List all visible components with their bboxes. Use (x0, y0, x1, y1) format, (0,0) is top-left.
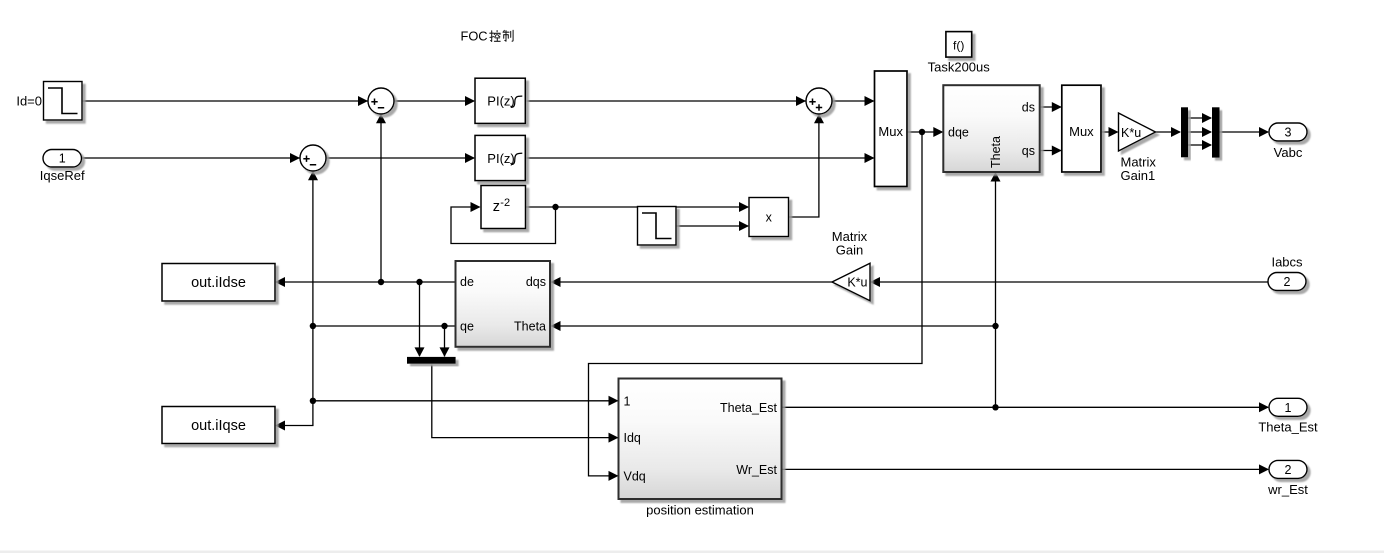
arrow into product x bottom (739, 221, 749, 231)
arrow bars line3 (1202, 140, 1212, 150)
svg-text:out.iIqse: out.iIqse (191, 418, 246, 434)
arrow into product x top (739, 202, 749, 212)
arrow into sum1 bottom (376, 114, 386, 124)
arrow into sum2 bottom (308, 171, 318, 181)
arrow into Mux1 input2 (865, 153, 875, 163)
node theta-est junction (992, 404, 998, 410)
svg-text:de: de (460, 275, 474, 289)
Mux2 (1062, 85, 1101, 172)
arrow into pos-est input1 (609, 396, 619, 406)
svg-text:qe: qe (460, 320, 474, 334)
arrow into dqe input (933, 127, 943, 137)
svg-text:K*u: K*u (847, 276, 867, 290)
sum S1 (368, 88, 394, 114)
wire sum2 to PI2 (326, 157, 475, 159)
svg-text:2: 2 (1284, 275, 1291, 289)
wire mux bar to outport3 (1220, 131, 1269, 133)
delay block Z2 (481, 186, 526, 229)
svg-text:3: 3 (1285, 126, 1292, 140)
wire product x to sum3 bottom (789, 115, 819, 218)
wire black bar to Idq (432, 365, 618, 438)
wire step2 to product x bottom input (676, 225, 748, 227)
wire de to black bar (419, 282, 421, 356)
arrow into dqs (551, 277, 561, 287)
svg-text:Idq: Idq (624, 431, 641, 445)
wire dqe ds to Mux2 (1040, 106, 1061, 108)
svg-text:FOC: FOC (461, 28, 488, 43)
svg-text:position estimation: position estimation (646, 503, 754, 518)
svg-text:Mux: Mux (1069, 124, 1094, 139)
svg-text:Theta: Theta (514, 320, 546, 334)
wire Wr_Est to outport2 (782, 468, 1269, 470)
Mux1 (875, 71, 908, 187)
mux black bar (1212, 107, 1220, 157)
title hanzi zhi (503, 30, 513, 41)
arrow bars line1 (1202, 113, 1212, 123)
node qe-sum2 junction (310, 323, 316, 329)
wire theta vertical (995, 173, 997, 407)
arrow into pos-est Vdq (609, 471, 619, 481)
arrow into sum3 bottom (814, 114, 824, 124)
arrow into out.iIqse (275, 421, 285, 431)
svg-text:Theta_Est: Theta_Est (1258, 420, 1318, 435)
step block Id=0 (44, 82, 83, 121)
outport block out.iIqse (162, 407, 275, 444)
wire Vdq feedback loop (589, 132, 923, 476)
inport 1 IqseRef (43, 150, 82, 168)
product block x (749, 198, 789, 237)
arrow into outport1 (1259, 402, 1269, 412)
svg-text:1: 1 (624, 394, 631, 408)
arrow into pos-est Idq (609, 433, 619, 443)
arrow into sum1 (358, 96, 368, 106)
outport block out.iIdse (162, 264, 275, 302)
sum S2 (300, 145, 326, 171)
node qe-bar junction (441, 323, 447, 329)
svg-text:Wr_Est: Wr_Est (736, 463, 777, 477)
svg-text:Gain1: Gain1 (1121, 168, 1156, 183)
arrow into gain1 (1109, 127, 1119, 137)
subsystem dqe/Theta (943, 85, 1039, 172)
wire Z2 feedback loop (451, 207, 556, 244)
demux black bar (1181, 107, 1188, 157)
wire qe down to out.iIqse (276, 326, 313, 426)
wire PI1 to sum3 (527, 100, 806, 102)
wire de output (276, 281, 456, 283)
node qe-input1 junction (310, 398, 316, 404)
wire Mux2 to gain1 (1101, 131, 1118, 133)
wire step1 to sum1 (82, 100, 368, 102)
arrow into Z2 input (471, 202, 481, 212)
sum S3 (806, 88, 832, 114)
wire qe to black bar (444, 326, 446, 357)
arrow into outport2 (1259, 464, 1269, 474)
svg-text:Vdq: Vdq (624, 469, 646, 483)
svg-text:f(): f() (953, 39, 964, 53)
wire Z2 output to junction (526, 206, 556, 208)
wire sum3 to Mux1 (832, 100, 874, 102)
wire theta to de-qe block (552, 325, 996, 327)
svg-text:dqe: dqe (948, 125, 969, 139)
svg-text:Mux: Mux (878, 124, 903, 139)
bottom canvas edge line (0, 551, 1384, 553)
arrow into sum3 (796, 96, 806, 106)
svg-text:Task200us: Task200us (928, 60, 991, 75)
svg-text:Vabc: Vabc (1274, 145, 1303, 160)
arrow into dqe theta bottom (991, 172, 1001, 182)
wire inport2 Iabcs to gain2 (871, 281, 1268, 283)
svg-text:Gain: Gain (836, 243, 863, 258)
arrow into PI2 (465, 153, 475, 163)
arrow bars line2 (1202, 127, 1212, 137)
arrow into demux bar (1171, 127, 1181, 137)
outport 1 Theta_Est (1269, 398, 1307, 416)
subsystem position estimation (619, 379, 782, 500)
svg-text:x: x (766, 211, 773, 225)
wire qe output (313, 325, 456, 327)
svg-text:out.iIdse: out.iIdse (191, 275, 246, 291)
svg-text:Theta_Est: Theta_Est (720, 401, 778, 415)
wire inport1 to sum2 (82, 157, 300, 159)
gain Matrix Gain1 (1119, 113, 1156, 151)
wire PI2 to Mux1 (527, 157, 874, 159)
outport 2 wr_Est (1269, 460, 1307, 478)
node de-sum1 junction (378, 279, 384, 285)
svg-text:dqs: dqs (526, 275, 546, 289)
arrow into bar from qe (440, 347, 450, 357)
arrow into gain2 (870, 277, 880, 287)
wire demux to mux bar line3 (1188, 144, 1211, 146)
arrowheads (275, 96, 1269, 481)
wire dqe qs to Mux2 (1040, 150, 1061, 152)
gain Matrix Gain (pointing left) (832, 263, 870, 301)
outport 3 Vabc (1269, 123, 1307, 141)
node theta-qe junction (992, 323, 998, 329)
wire demux to mux bar line1 (1188, 117, 1211, 119)
arrow into outport3 (1259, 127, 1269, 137)
svg-text:z: z (493, 199, 500, 215)
wire gain2 to dqs input (552, 281, 833, 283)
arrow into Mux1 input1 (865, 96, 875, 106)
wire demux to mux bar line2 (1188, 131, 1211, 133)
svg-text:qs: qs (1022, 144, 1035, 158)
svg-text:1: 1 (1285, 401, 1292, 415)
svg-text:Id=0: Id=0 (16, 94, 42, 109)
node de-bar junction (416, 279, 422, 285)
svg-text:Theta: Theta (989, 136, 1003, 168)
trigger f() block (946, 32, 972, 57)
arrow into sum2 (290, 153, 300, 163)
wire gain1 to demux bar (1155, 131, 1180, 133)
svg-text:2: 2 (1285, 463, 1292, 477)
svg-text:ds: ds (1022, 100, 1035, 114)
svg-text:K*u: K*u (1121, 126, 1141, 140)
arrow into Mux2 input1 (1052, 102, 1062, 112)
arrow into Mux2 input2 (1052, 146, 1062, 156)
node Mux1 output junction (919, 129, 925, 135)
arrow into PI1 (465, 96, 475, 106)
arrow into theta input of de-qe (551, 321, 561, 331)
svg-text:1: 1 (59, 152, 66, 166)
wire sum1 to PI1 (394, 100, 475, 102)
wire to position estimation input 1 (313, 400, 618, 402)
arrow into bar from de (415, 347, 425, 357)
PI controller PI2 (475, 135, 525, 180)
wire Mux1 to dqe subsystem (907, 131, 942, 133)
svg-text:IqseRef: IqseRef (40, 168, 85, 183)
wire qe feedback to sum2 (312, 172, 314, 327)
svg-text:-2: -2 (500, 197, 510, 209)
step block step2 (638, 207, 677, 246)
arrow into out.iIdse (275, 277, 285, 287)
title hanzi kong (490, 31, 500, 42)
mux black bar horizontal (407, 357, 456, 364)
inport 2 Iabcs (1268, 273, 1306, 291)
node Z2 output junction (552, 204, 558, 210)
wire Theta_Est to outport1 (782, 406, 1269, 408)
wire de feedback to sum1 (380, 115, 382, 283)
subsystem de/qe (456, 261, 551, 347)
wire junction to product x top input (556, 206, 749, 208)
PI controller PI1 (475, 78, 525, 123)
svg-text:Iabcs: Iabcs (1271, 255, 1303, 270)
svg-text:wr_Est: wr_Est (1267, 482, 1308, 497)
